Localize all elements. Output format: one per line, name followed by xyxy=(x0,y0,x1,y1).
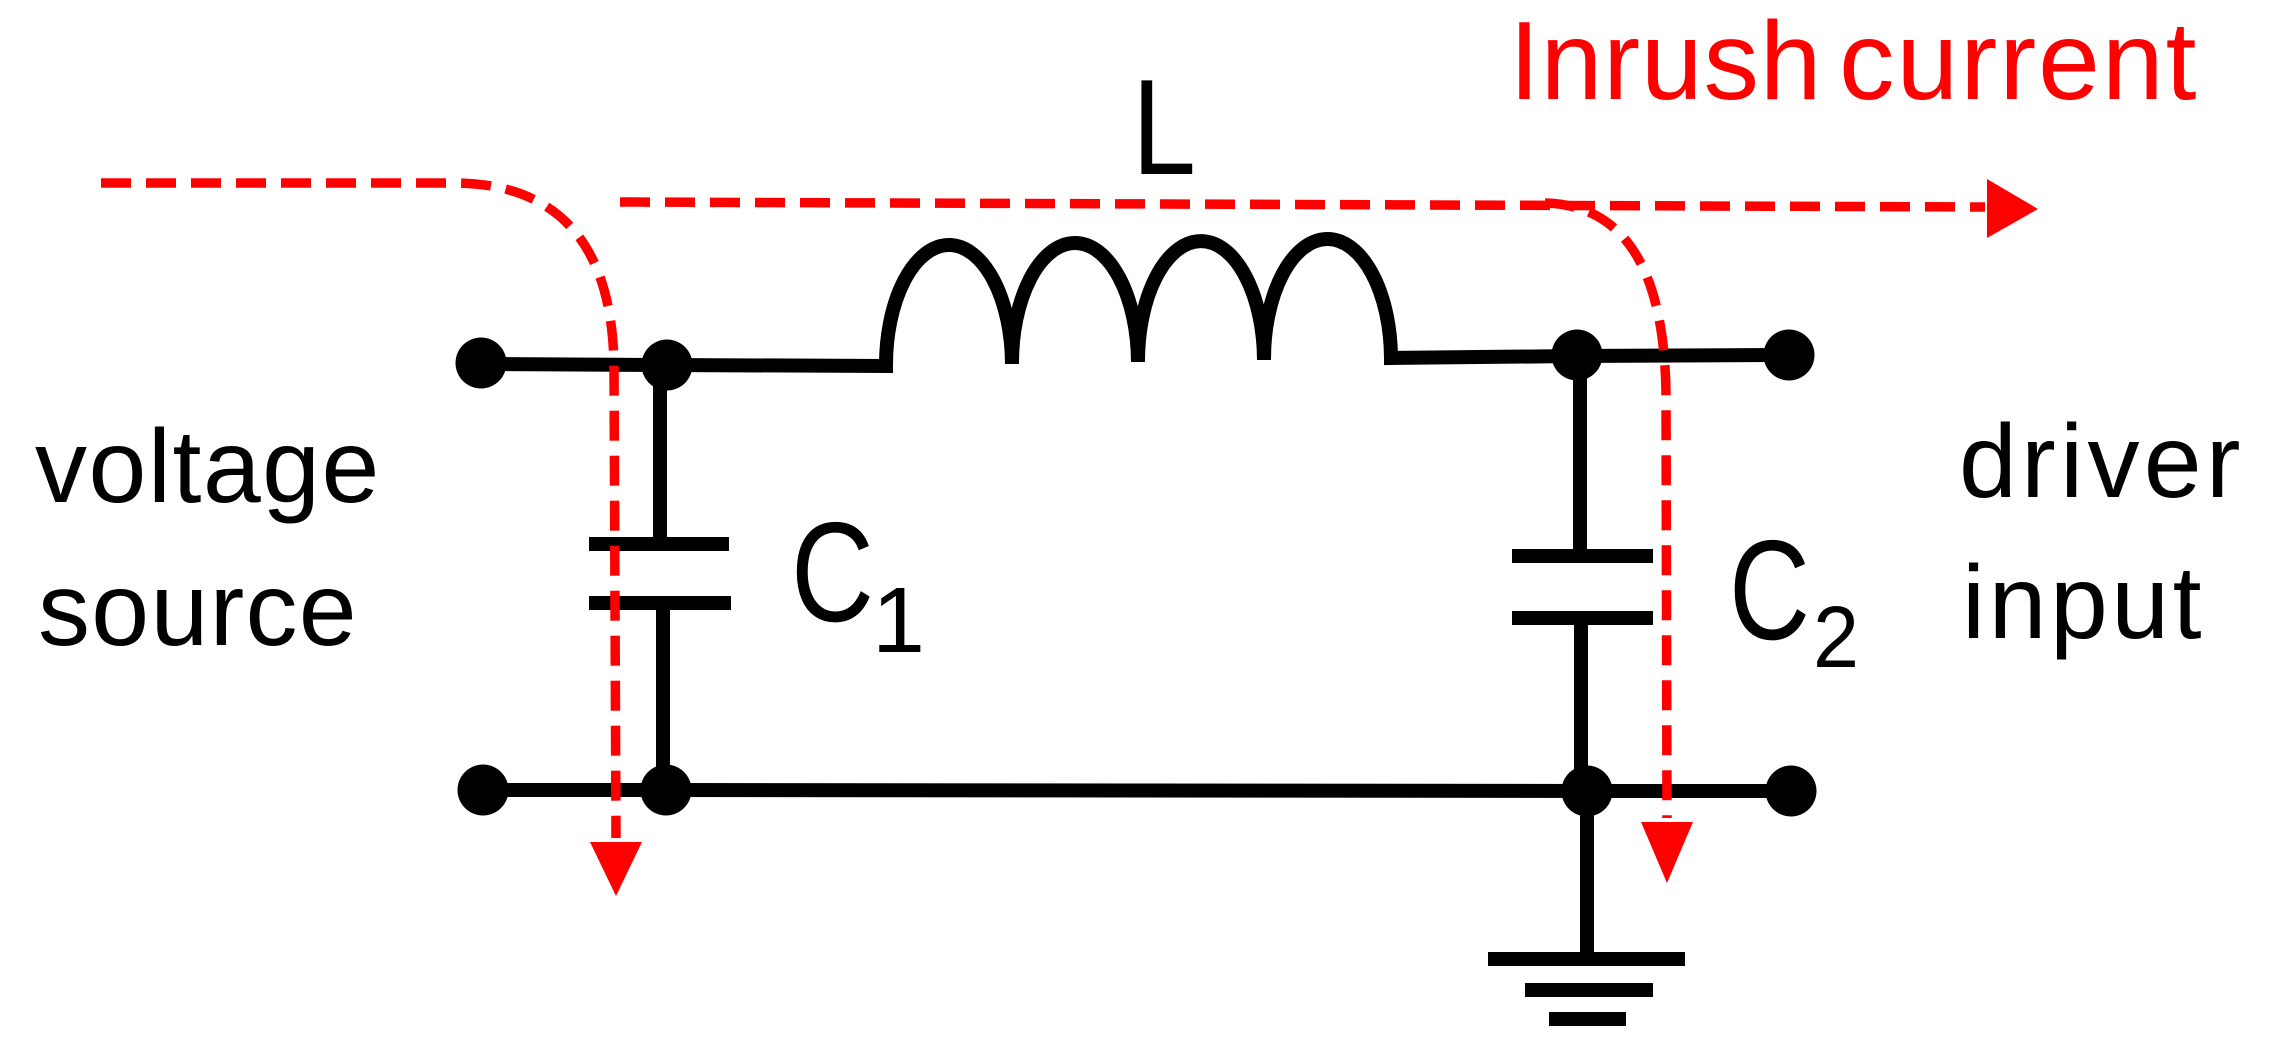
svg-text:C: C xyxy=(791,493,874,652)
svg-text:current: current xyxy=(1839,0,2198,123)
svg-text:Inrush: Inrush xyxy=(1509,0,1822,123)
svg-text:L: L xyxy=(1132,51,1196,203)
svg-text:input: input xyxy=(1962,545,2205,661)
svg-text:2: 2 xyxy=(1813,589,1859,686)
svg-text:1: 1 xyxy=(872,568,925,672)
svg-text:source: source xyxy=(38,552,358,668)
svg-text:driver: driver xyxy=(1959,404,2245,520)
svg-text:C: C xyxy=(1729,511,1810,670)
svg-text:voltage: voltage xyxy=(35,409,381,525)
